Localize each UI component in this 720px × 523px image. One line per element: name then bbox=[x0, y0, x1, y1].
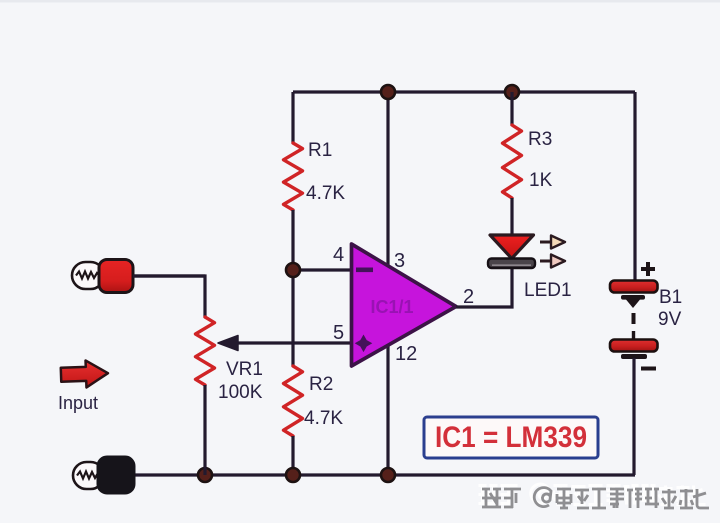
resistor R3 bbox=[503, 125, 522, 198]
node junction bottom rail / pin12 bbox=[381, 468, 395, 482]
potentiometer VR1 top wire bbox=[132, 276, 205, 317]
wire right rail (top rail to battery +) bbox=[633, 92, 636, 281]
battery B1 minus sign bbox=[641, 367, 656, 371]
wire R1 bottom to R2 top bbox=[291, 210, 294, 366]
wire bottom rail bbox=[133, 473, 635, 476]
op-amp plus symbol bbox=[355, 335, 373, 353]
resistor R2 bbox=[284, 366, 303, 436]
svg-text:R2: R2 bbox=[309, 374, 333, 395]
wire pin12 vertical (op-amp to bottom rail) bbox=[386, 344, 389, 475]
svg-text:1K: 1K bbox=[529, 170, 553, 191]
resistor R1 bbox=[284, 143, 303, 210]
wire battery mid link bbox=[632, 331, 635, 341]
node junction R1/R2/pin4 bbox=[286, 263, 300, 277]
LED LED1 cathode bar bbox=[488, 259, 535, 269]
battery B1 top plate (long, +) bbox=[610, 281, 658, 293]
svg-text:Input: Input bbox=[58, 393, 98, 413]
node junction bottom rail / R2 bbox=[286, 468, 300, 482]
battery B1 bottom plate (long) bbox=[610, 340, 658, 352]
svg-text:IC1/1: IC1/1 bbox=[370, 297, 413, 317]
svg-text:B1: B1 bbox=[659, 287, 682, 308]
svg-text:R1: R1 bbox=[308, 140, 332, 161]
svg-text:100K: 100K bbox=[218, 382, 263, 403]
wire left column (R1/R2 chain) bbox=[291, 92, 294, 143]
battery B1 bottom short plate bbox=[621, 354, 647, 359]
svg-text:LED1: LED1 bbox=[524, 280, 572, 301]
svg-text:4.7K: 4.7K bbox=[306, 183, 345, 204]
wire R2 bottom to bottom rail bbox=[291, 436, 294, 475]
red probe body bbox=[99, 260, 133, 293]
svg-text:IC1 = LM339: IC1 = LM339 bbox=[435, 421, 587, 454]
IC1 = LM339 note box bbox=[424, 417, 598, 458]
svg-text:4.7K: 4.7K bbox=[304, 408, 343, 429]
svg-text:4: 4 bbox=[333, 244, 344, 266]
LED light arrow 2 bbox=[540, 255, 565, 268]
potentiometer VR1 body bbox=[196, 317, 215, 385]
wire pin4 input bbox=[293, 268, 352, 271]
LED LED1 triangle (anode) bbox=[490, 235, 534, 259]
potentiometer wiper arrow bbox=[218, 336, 238, 351]
wire R3 bottom to LED anode bbox=[510, 198, 513, 236]
svg-text:R3: R3 bbox=[528, 129, 552, 150]
svg-text:VR1: VR1 bbox=[226, 359, 263, 380]
wire pin3 vertical (top rail to op-amp) bbox=[386, 92, 389, 267]
svg-text:9V: 9V bbox=[658, 309, 682, 330]
wire battery - to bottom rail bbox=[632, 358, 635, 475]
svg-text:12: 12 bbox=[395, 343, 417, 365]
battery dashed link bbox=[632, 313, 636, 324]
potentiometer VR1 bottom wire bbox=[203, 385, 206, 475]
wire top rail bbox=[293, 90, 635, 93]
svg-text:3: 3 bbox=[394, 250, 405, 272]
svg-text:2: 2 bbox=[463, 286, 474, 308]
op-amp minus symbol bbox=[356, 268, 373, 273]
LED light arrow 1 bbox=[540, 236, 565, 249]
input arrow bbox=[61, 360, 109, 389]
wire R3 top bbox=[510, 92, 513, 125]
battery B1 top short plate (-) bbox=[621, 295, 645, 308]
node junction bottom rail / VR1 bbox=[198, 468, 212, 482]
svg-text:5: 5 bbox=[333, 322, 344, 344]
black probe tip (capsule with teeth) bbox=[73, 462, 104, 489]
node junction top rail / R3 bbox=[505, 85, 519, 99]
node junction top rail / pin3 bbox=[381, 85, 395, 99]
red probe tip (capsule with teeth) bbox=[72, 262, 104, 289]
op-amp U1 (IC1/1) bbox=[352, 244, 457, 366]
wire red probe to VR1 bbox=[133, 274, 205, 277]
black probe body bbox=[98, 457, 134, 493]
wire pin5 input (from wiper) bbox=[237, 341, 352, 344]
wire op-amp output to LED cathode bbox=[456, 268, 512, 307]
battery B1 plus sign bbox=[641, 262, 655, 276]
